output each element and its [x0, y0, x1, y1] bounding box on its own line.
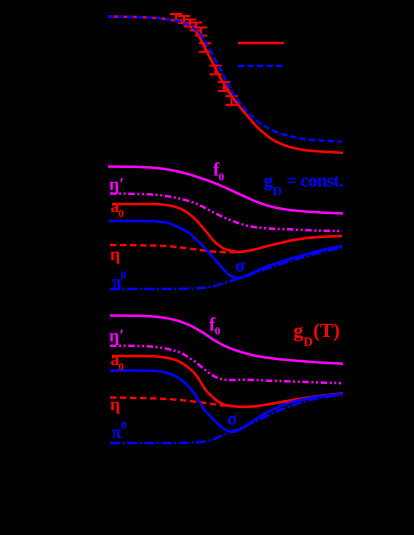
bottom panel label eta-prime (magenta)	[109, 330, 123, 346]
bottom panel label eta (red)	[110, 402, 119, 414]
bottom panel label gD(T) (red)	[294, 323, 339, 346]
middle panel label a0 (red)	[111, 204, 123, 217]
middle panel: f0 magenta solid curve	[108, 167, 343, 214]
bottom panel: eta-prime magenta dash-dot-dot curve	[110, 346, 341, 384]
bottom panel label f0 (magenta)	[209, 317, 220, 335]
bottom panel label sigma (blue)	[228, 415, 238, 425]
middle panel: pi0 blue dash-dot curve	[110, 248, 342, 289]
top panel: blue dashed condensate curve	[108, 17, 342, 142]
middle panel: eta-prime magenta dash-dot-dot curve	[110, 194, 342, 232]
middle panel label sigma (blue)	[236, 262, 246, 272]
bottom panel: sigma blue solid curve	[110, 371, 343, 432]
bottom panel: a0 red solid curve	[112, 356, 343, 407]
middle panel label eta-prime (magenta)	[109, 178, 123, 194]
bottom panel label pi0 (blue)	[112, 422, 127, 439]
bottom panel: pi0 blue dash-dot curve	[110, 395, 343, 443]
legend red solid line	[238, 42, 284, 45]
middle panel label pi0 (blue)	[112, 271, 126, 288]
middle panel label f0 (magenta)	[213, 162, 224, 181]
bottom panel label a0 (red)	[111, 357, 123, 370]
top panel: red data error bars	[170, 14, 182, 20]
top panel: red solid condensate curve	[108, 17, 343, 153]
middle panel: sigma blue solid curve	[109, 221, 342, 278]
middle panel label gD = const. (blue)	[264, 176, 342, 195]
middle panel: eta red dashed curve	[110, 236, 342, 252]
bottom panel: eta red dashed curve	[110, 394, 343, 407]
middle panel: a0 red solid curve	[112, 204, 342, 252]
middle panel label eta (red)	[110, 252, 119, 264]
bottom panel: f0 magenta solid curve	[110, 316, 343, 364]
legend blue dashed line	[238, 65, 284, 68]
